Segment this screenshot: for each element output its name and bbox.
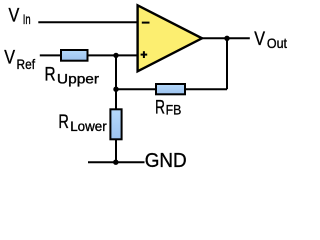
op-amp U1 [138,5,202,71]
wire U1 output to VOut [201,37,250,39]
svg-text:R: R [155,97,165,119]
svg-text:Upper: Upper [57,70,100,86]
svg-text:R: R [45,63,56,85]
wire RLower to ground [115,139,117,162]
wire VRef to RUpper [40,54,62,56]
label VRef [4,47,35,73]
wire RUpper to U1 non-inverting input [88,54,139,56]
svg-text:In: In [23,11,31,27]
svg-text:Out: Out [267,35,287,51]
wire RFB left terminal to node A [116,88,156,90]
svg-text:FB: FB [166,102,182,118]
svg-text:R: R [58,111,69,133]
label RLower [58,111,107,134]
U1 non-inverting input marker (+) [141,51,148,58]
label VIn [9,5,31,27]
junction node A at feedback tap [113,87,118,92]
svg-text:GND: GND [145,149,187,172]
ground [88,161,145,163]
wire feedback to RFB right terminal [185,88,227,90]
resistor RLower [110,109,121,139]
svg-text:Ref: Ref [17,56,36,72]
resistor RUpper [61,50,88,61]
junction output node [224,36,229,41]
label VOut [254,28,287,51]
U1 inverting input marker (-) [142,22,150,24]
wire feedback from output node down [226,38,228,89]
svg-text:V: V [254,28,265,50]
junction node A at RUpper output [113,53,118,58]
label RFB [155,97,181,119]
wire VIn to U1 inverting input [38,21,138,23]
resistor RFB [156,84,185,94]
label RUpper [45,63,100,86]
junction at ground [113,160,118,165]
svg-text:Lower: Lower [70,118,107,134]
svg-text:V: V [9,5,20,27]
wire node A down to RLower [115,55,117,110]
svg-text:V: V [4,47,15,69]
